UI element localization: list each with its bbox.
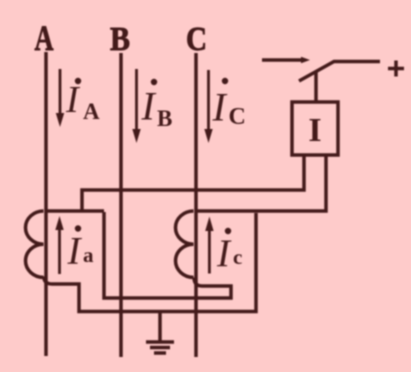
svg-text:A: A — [35, 18, 54, 58]
svg-text:I: I — [212, 85, 228, 130]
svg-text:C: C — [229, 104, 246, 130]
svg-text:a: a — [83, 243, 94, 267]
svg-text:B: B — [110, 21, 130, 58]
svg-text:I: I — [65, 79, 81, 121]
svg-text:B: B — [157, 106, 172, 131]
svg-text:I: I — [216, 232, 232, 275]
svg-text:c: c — [233, 245, 242, 269]
svg-text:I: I — [141, 84, 157, 129]
svg-text:C: C — [186, 21, 207, 58]
svg-text:I: I — [308, 112, 321, 149]
svg-text:I: I — [67, 230, 83, 273]
svg-text:A: A — [83, 99, 100, 124]
